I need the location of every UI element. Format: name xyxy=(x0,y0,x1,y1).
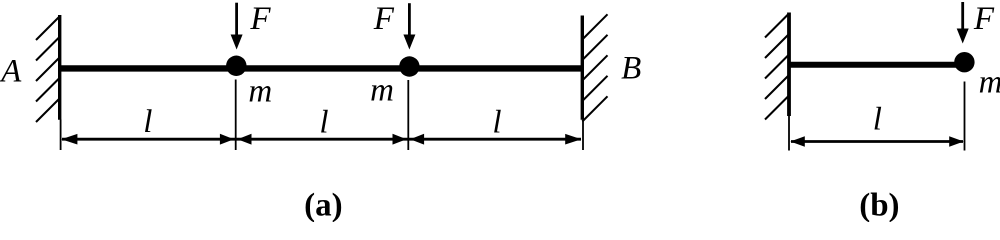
svg-text:l: l xyxy=(873,102,882,138)
svg-text:l: l xyxy=(319,105,328,141)
svg-text:l: l xyxy=(143,104,152,140)
svg-text:m: m xyxy=(370,73,394,109)
svg-text:F: F xyxy=(973,1,995,37)
svg-text:A: A xyxy=(0,54,22,90)
svg-text:(a): (a) xyxy=(304,188,342,222)
svg-text:l: l xyxy=(492,105,501,141)
svg-text:B: B xyxy=(621,51,641,87)
svg-text:(b): (b) xyxy=(859,188,899,222)
svg-text:m: m xyxy=(979,65,1000,101)
svg-text:F: F xyxy=(249,1,271,37)
svg-text:F: F xyxy=(373,1,395,37)
svg-text:m: m xyxy=(248,74,272,110)
